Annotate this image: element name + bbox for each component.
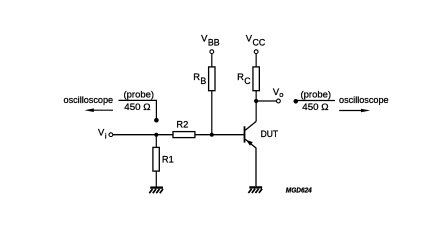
svg-text:R: R — [193, 71, 200, 82]
wire: RC to collector junction — [255, 91, 257, 122]
arrow to left oscilloscope — [85, 108, 114, 112]
node: junction Vi/R1 — [154, 133, 158, 137]
wire: VBB to RB — [211, 54, 213, 67]
wire: junction to Vo terminal — [256, 100, 276, 102]
resistor RB — [209, 67, 215, 91]
wire: VCC to RC — [255, 54, 257, 67]
svg-text:BB: BB — [208, 38, 220, 48]
terminal Vo — [277, 99, 281, 103]
svg-text:(probe): (probe) — [301, 90, 332, 100]
svg-text:C: C — [244, 76, 251, 86]
ground (emitter) — [248, 187, 262, 193]
svg-text:450 Ω: 450 Ω — [124, 102, 150, 112]
wire: R1 to ground — [155, 171, 157, 187]
node: junction R2/RB — [210, 133, 214, 137]
node: junction collector/Vo — [254, 99, 258, 103]
resistor R1 — [155, 135, 157, 148]
resistor R2 — [173, 132, 195, 138]
terminal Vi — [109, 133, 113, 137]
wire: Vi to R2 — [113, 134, 173, 136]
svg-text:R1: R1 — [162, 155, 174, 165]
node: left probe tip dot — [154, 118, 159, 123]
svg-text:450 Ω: 450 Ω — [302, 102, 328, 112]
svg-text:R2: R2 — [176, 120, 188, 130]
svg-text:o: o — [279, 90, 283, 99]
svg-text:MGD624: MGD624 — [286, 188, 312, 195]
svg-text:DUT: DUT — [261, 129, 279, 139]
svg-text:CC: CC — [253, 38, 266, 48]
arrow from right oscilloscope — [339, 109, 370, 113]
svg-text:(probe): (probe) — [124, 90, 155, 100]
terminal VBB — [210, 50, 214, 54]
terminal VCC — [254, 50, 258, 54]
wire: left probe line with vertical drop — [119, 100, 157, 119]
emitter arrow (points to base: PNP) — [246, 140, 253, 146]
resistor RC — [253, 67, 259, 91]
svg-text:oscilloscope: oscilloscope — [339, 95, 389, 105]
node: right probe tip dot — [294, 99, 299, 104]
svg-text:oscilloscope: oscilloscope — [64, 95, 114, 105]
svg-text:B: B — [200, 76, 206, 86]
wire: right probe line — [296, 100, 335, 102]
wire: RB to base junction — [211, 91, 213, 135]
svg-text:R: R — [237, 71, 244, 82]
wire: R2 to base — [195, 134, 244, 136]
transistor DUT (PNP) — [245, 121, 257, 186]
ground (below R1) — [149, 188, 163, 194]
